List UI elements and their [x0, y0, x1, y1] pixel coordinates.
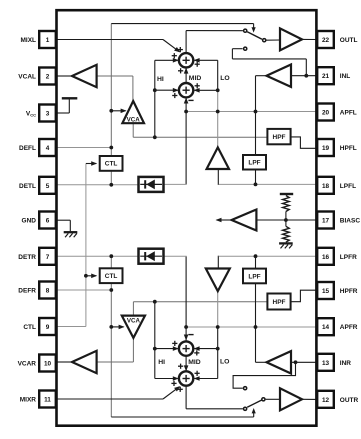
svg-text:12: 12	[322, 397, 330, 404]
svg-text:VCAL: VCAL	[18, 74, 36, 81]
svg-text:20: 20	[322, 110, 330, 117]
svg-text:22: 22	[322, 37, 330, 44]
svg-text:CTL: CTL	[105, 273, 118, 280]
svg-text:LO: LO	[220, 75, 229, 82]
svg-text:7: 7	[46, 254, 50, 261]
svg-text:HPF: HPF	[273, 299, 286, 306]
svg-text:LPF: LPF	[248, 160, 260, 167]
svg-text:HPF: HPF	[273, 134, 286, 141]
svg-text:HPFR: HPFR	[340, 288, 358, 295]
svg-text:GND: GND	[22, 218, 37, 225]
svg-text:MID: MID	[188, 359, 201, 366]
svg-text:1: 1	[46, 37, 50, 44]
svg-text:3: 3	[46, 111, 50, 118]
svg-text:HI: HI	[157, 76, 164, 83]
svg-text:OUTL: OUTL	[340, 37, 358, 44]
svg-text:LPFL: LPFL	[340, 183, 356, 190]
svg-text:CTL: CTL	[105, 161, 118, 168]
svg-text:INR: INR	[340, 360, 352, 367]
svg-text:BIASC: BIASC	[340, 218, 361, 225]
svg-text:HI: HI	[158, 359, 165, 366]
svg-text:LPF: LPF	[248, 273, 260, 280]
svg-text:VCAR: VCAR	[18, 361, 37, 368]
svg-text:DETR: DETR	[18, 254, 36, 261]
svg-text:11: 11	[44, 397, 51, 404]
svg-text:13: 13	[322, 360, 330, 367]
svg-text:MIXR: MIXR	[20, 397, 37, 404]
svg-text:INL: INL	[340, 73, 351, 80]
svg-text:DEFL: DEFL	[19, 145, 36, 152]
svg-text:18: 18	[322, 183, 330, 190]
svg-text:MIXL: MIXL	[20, 37, 36, 44]
svg-text:VCA: VCA	[127, 317, 141, 324]
svg-text:2: 2	[46, 74, 50, 81]
svg-text:DEFR: DEFR	[18, 288, 36, 295]
svg-text:10: 10	[44, 361, 52, 368]
svg-text:19: 19	[322, 145, 330, 152]
svg-text:15: 15	[322, 288, 330, 295]
svg-text:DETL: DETL	[19, 183, 36, 190]
svg-text:21: 21	[322, 73, 330, 80]
svg-text:16: 16	[322, 254, 330, 261]
svg-text:9: 9	[46, 324, 50, 331]
svg-text:HPFL: HPFL	[340, 145, 357, 152]
svg-text:LO: LO	[220, 358, 229, 365]
svg-text:APFL: APFL	[340, 110, 357, 117]
svg-text:MID: MID	[189, 75, 202, 82]
svg-text:6: 6	[46, 218, 50, 225]
svg-text:14: 14	[322, 324, 330, 331]
svg-text:OUTR: OUTR	[340, 397, 359, 404]
svg-text:LPFR: LPFR	[340, 254, 357, 261]
svg-text:17: 17	[322, 218, 330, 225]
svg-text:8: 8	[46, 288, 50, 295]
svg-text:APFR: APFR	[340, 324, 358, 331]
svg-text:4: 4	[46, 145, 50, 152]
svg-text:CTL: CTL	[23, 324, 36, 331]
svg-text:5: 5	[46, 183, 50, 190]
svg-text:VCA: VCA	[127, 116, 141, 123]
